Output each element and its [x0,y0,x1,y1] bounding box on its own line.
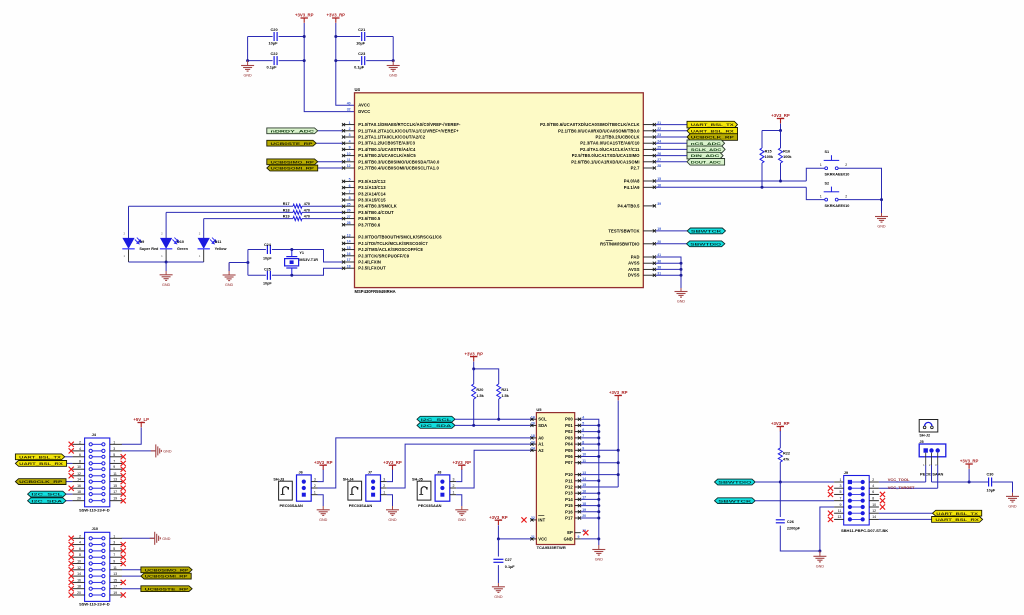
net label UCB0SOMI_RP [318,167,343,169]
capacitor C24 10pF [267,245,270,254]
net label I2C_SCL (U5) [417,416,455,422]
svg-text:3: 3 [113,541,115,545]
svg-text:DVSS: DVSS [628,273,640,278]
svg-text:32: 32 [347,108,351,112]
svg-text:P3.5/TB0.4/COUT: P3.5/TB0.4/COUT [358,210,394,215]
U4 pin 13 PJ.0 [342,236,354,238]
svg-text:14: 14 [872,515,876,519]
wire D10 anode [165,212,167,238]
svg-text:40: 40 [347,101,351,105]
net label DOUT_ADC [656,161,687,163]
U5 pin 22 INT [531,519,537,521]
J4 pin 4 left [89,449,92,452]
svg-text:P1.4/TB0.1/UCA0STE/A4/C4: P1.4/TB0.1/UCA0STE/A4/C4 [358,147,416,152]
op-amp U5 TCA9535RTWR body [536,413,574,545]
svg-text:P2.0/TB0.6/UCA0TXD/UCA0SIMO/TB: P2.0/TB0.6/UCA0TXD/UCA0SIMO/TB0CLK/ACLK [540,122,639,127]
svg-text:UCB0SIMO_RP: UCB0SIMO_RP [145,567,189,572]
svg-text:PJ.4/LFXIN: PJ.4/LFXIN [358,260,381,265]
svg-text:2: 2 [79,440,81,444]
svg-text:23: 23 [531,440,535,444]
svg-text:J10: J10 [92,526,99,531]
svg-text:10µF: 10µF [987,489,996,493]
svg-text:14: 14 [347,240,351,244]
svg-text:TCA9535RTWR: TCA9535RTWR [537,545,566,550]
svg-text:13: 13 [347,233,351,237]
svg-text:19: 19 [113,497,117,501]
U5 INT no-connect x [521,517,526,522]
svg-text:INT: INT [538,517,545,522]
svg-text:GND: GND [677,300,686,304]
svg-text:SH-J5: SH-J5 [412,477,423,481]
U5 pin 25 EP [575,532,581,534]
J10 pin 11 right [102,568,105,571]
svg-text:4: 4 [79,541,81,545]
svg-text:+3V3_RP: +3V3_RP [295,13,314,18]
wire J10 pin1 to GND [122,537,155,539]
J9 pin 11 left [848,511,852,515]
net label UCB0STE_RP (J10) [122,588,141,590]
svg-text:C27: C27 [505,558,512,562]
svg-text:2: 2 [349,127,351,131]
wire C21/C23 right rail [392,37,394,61]
svg-text:39: 39 [657,202,661,206]
svg-text:22: 22 [531,516,535,520]
net label nDRDY_ADC [318,130,343,132]
svg-text:UART_BSL_RX: UART_BSL_RX [935,517,979,522]
U4 pin 10 P1.5 [342,155,354,157]
svg-text:7: 7 [349,190,351,194]
svg-text:2: 2 [872,478,874,482]
svg-text:10pF: 10pF [263,256,272,260]
wire J7 pin3 to 3V3 [387,470,393,482]
svg-text:15: 15 [113,578,117,582]
U4 pin 38 AVSS right [643,268,655,270]
J9 pin 7 left [848,499,852,503]
J10 pin 13 right [102,575,105,578]
svg-text:PAD: PAD [631,255,640,260]
svg-text:4: 4 [349,139,351,143]
svg-text:C30: C30 [987,472,994,476]
svg-text:P2.3/TA0.0/UCA1STE/A6/C10: P2.3/TA0.0/UCA1STE/A6/C10 [580,141,640,146]
svg-text:MSP430FR5949IRHA: MSP430FR5949IRHA [355,289,396,294]
svg-text:10: 10 [77,560,81,564]
wire C30 to gnd [992,482,1012,493]
wire J8 pin2 to A2 [456,450,530,488]
svg-text:J7: J7 [368,471,372,475]
U4 pin 26 P2.5 right [643,155,655,157]
wire J4 pin1 to +5V_LP [122,428,141,445]
svg-text:C20: C20 [271,27,278,32]
J10 pin 7 right [102,556,105,559]
svg-text:PJ.1/TDI/TCLK/MCLK/SRSCG0/C7: PJ.1/TDI/TCLK/MCLK/SRSCG0/C7 [358,241,428,246]
U4 pin 22 P2.1 right [643,130,655,132]
svg-text:GND: GND [458,518,467,522]
svg-text:R18: R18 [283,208,290,212]
svg-text:2: 2 [79,534,81,538]
ground GND (J8) [461,506,463,510]
svg-text:3: 3 [349,133,351,137]
capacitor C22 [274,56,277,65]
J9 pin 14 right [861,517,865,521]
ground GND (LEDs) [165,262,167,271]
svg-text:470: 470 [304,215,310,219]
svg-text:2200pF: 2200pF [787,527,801,531]
svg-text:11: 11 [113,472,117,476]
wire +3V3 to DVCC [304,23,354,112]
svg-text:DOUT_ADC: DOUT_ADC [691,160,721,164]
svg-text:PEC03SAAN: PEC03SAAN [280,503,304,508]
J4 pin 1 right [102,443,105,446]
svg-text:AVSS: AVSS [628,261,640,266]
U4 pin 26 P3.5 [342,211,354,213]
svg-text:+3V3_RP: +3V3_RP [327,13,346,18]
svg-text:P3.4/TB0.3/SMCLK: P3.4/TB0.3/SMCLK [358,204,397,209]
svg-text:P2.7: P2.7 [631,166,641,171]
svg-text:P4.4/TB0.5: P4.4/TB0.5 [617,203,640,208]
svg-text:R20: R20 [476,388,483,392]
U5 pin 23 A1 [531,443,537,445]
svg-text:8: 8 [79,553,81,557]
svg-text:0.1µF: 0.1µF [505,565,515,569]
svg-text:1: 1 [349,121,351,125]
resistor R22 47k [779,431,781,448]
wire C21 row [336,36,360,38]
U4 pin 16 P4.1 right [643,186,655,188]
J10 pin 5 right [102,549,105,552]
resistor R20 1.5k [473,369,475,384]
svg-text:3: 3 [314,477,316,481]
svg-text:18: 18 [347,264,351,268]
svg-text:9: 9 [839,503,841,507]
svg-text:4: 4 [872,484,874,488]
svg-text:TEST/SBWTCK: TEST/SBWTCK [608,228,639,233]
J9 pin 2 right [861,480,865,484]
svg-text:10pF: 10pF [263,281,272,285]
U5 pin 4 P00 right [575,418,581,420]
svg-text:UCB0SOMI_RP: UCB0SOMI_RP [145,574,188,579]
wire J5 pin2 to 3V3 and C30 [931,465,933,482]
svg-text:J5: J5 [919,440,923,444]
wire P4.0 to S1 [656,180,807,182]
svg-text:P2.6/TB0.1/UCA1RXD/UCA1SOMI: P2.6/TB0.1/UCA1RXD/UCA1SOMI [571,159,639,164]
svg-text:GND: GND [319,518,328,522]
svg-text:P02: P02 [565,429,573,434]
svg-text:PJ.2/TMS/ACLK/SROSCOFF/C8: PJ.2/TMS/ACLK/SROSCOFF/C8 [358,247,423,252]
J4 pin 8 left [89,462,92,465]
wire J9 pin9 to gnd [820,507,834,551]
J4 pin 15 right [102,487,105,490]
svg-text:VCC: VCC [538,536,547,541]
svg-text:17: 17 [113,585,117,589]
J10 pin 2 left [89,537,92,540]
J10 pin 10 left [89,562,92,565]
wire D9 anode [128,206,130,238]
shunt SH-J4 [348,481,362,500]
svg-text:6: 6 [349,184,351,188]
svg-text:+3V3_RP: +3V3_RP [960,459,979,464]
J10 pin 15 right [102,581,105,584]
svg-text:S1: S1 [825,150,830,154]
J4 pin 18 left [89,493,92,496]
U4 pin 20 RST right [643,243,655,245]
svg-text:GND: GND [877,225,886,229]
svg-text:I2C_SCL: I2C_SCL [421,417,453,422]
svg-text:8: 8 [872,497,874,501]
svg-text:20: 20 [77,497,81,501]
net label UCB0SIMO_RP (J10) [122,569,141,571]
svg-text:GND: GND [564,536,573,541]
svg-text:C22: C22 [271,51,279,56]
svg-text:SH-J4: SH-J4 [343,477,355,481]
svg-text:UCB0SIMO_RP: UCB0SIMO_RP [271,159,315,164]
wire U5 pin to 3V3 bus [581,449,618,451]
J10 pin 18 left [89,587,92,590]
U5 pin 8 P04 right [575,443,581,445]
U5 pin 20 SDA [531,424,537,426]
ground GND (crystal) [228,263,230,276]
J4 unconnected right pin x marks [121,454,126,459]
svg-text:7: 7 [113,459,115,463]
wire J8 pin3 to 3V3 [456,470,462,482]
svg-text:12: 12 [77,472,81,476]
svg-text:17: 17 [347,258,351,262]
svg-text:P10: P10 [565,472,573,477]
svg-text:1: 1 [113,440,115,444]
J9 pin 1 left [848,480,852,484]
svg-text:20: 20 [77,591,81,595]
svg-text:+3V3_RP: +3V3_RP [489,515,508,520]
svg-text:P3.3/A15/C15: P3.3/A15/C15 [358,198,386,203]
J4 pin 6 left [89,455,92,458]
svg-text:12: 12 [872,509,876,513]
svg-text:470: 470 [304,208,310,212]
svg-text:PEC03SAAN: PEC03SAAN [349,503,373,508]
svg-text:0.1µF: 0.1µF [267,65,278,70]
connector J6 PEC03SAAN body [297,475,312,501]
svg-text:RST/NMI/SBWTDIO: RST/NMI/SBWTDIO [600,241,640,246]
svg-text:SKRKAEE010: SKRKAEE010 [825,204,850,208]
wire S2 to gnd rail [838,200,881,213]
J10 unconnected right pin x marks [121,542,126,547]
J4 pin 17 right [102,493,105,496]
svg-text:A1: A1 [538,442,544,447]
svg-text:C26: C26 [787,520,794,524]
svg-text:P3.2/A14/C14: P3.2/A14/C14 [358,191,386,196]
svg-text:9: 9 [578,535,580,539]
net label I2C_SCL (J4) [66,493,72,495]
svg-text:P1.5/TB0.2/UCA0CLK/A5/C5: P1.5/TB0.2/UCA0CLK/A5/C5 [358,153,416,158]
net label I2C_SDA (J4) [66,500,72,502]
svg-text:C24: C24 [264,243,272,247]
J4 pin 11 right [102,474,105,477]
J10 pin 14 left [89,575,92,578]
J9 pin 12 right [861,511,865,515]
U4 pin 14 PJ.1 [342,242,354,244]
shunt SH-J3 [279,481,293,500]
wire +3V3 to AVCC [336,23,355,105]
svg-text:R19: R19 [283,215,290,219]
net label nCS_ADC [656,142,687,144]
svg-text:SCL: SCL [538,417,547,422]
J4 pin 3 right [102,449,105,452]
J6 pin 2 [302,486,306,490]
U5 pin 5 P01 right [575,424,581,426]
U4 pin 28 P2.7 right [643,167,655,169]
U4 pin 25 P2.4 right [643,148,655,150]
svg-text:+5V_LP: +5V_LP [133,417,149,422]
net label SBWTCK [656,230,688,232]
svg-text:5: 5 [839,490,841,494]
svg-text:VCC_TOOL: VCC_TOOL [888,477,910,482]
LED D10 Green [165,238,167,262]
svg-text:SCLK_ADC: SCLK_ADC [691,148,722,152]
ground GND (J10) [150,532,161,545]
svg-text:GND: GND [162,537,171,541]
ground GND (U4 AVSS) [680,288,682,292]
svg-text:P01: P01 [565,423,573,428]
wire crystal top rail to PJ.4 [248,249,266,251]
wire U5 gnd bus (bus A) [581,419,599,545]
svg-text:P2.4/TA1.0/UCA1CLK/A7/C11: P2.4/TA1.0/UCA1CLK/A7/C11 [580,147,640,152]
J5 pin 1 [924,448,928,452]
svg-text:J6: J6 [299,471,303,475]
resistor R15 100k [761,131,763,149]
U4 pin 31 DVSS right [643,274,655,276]
svg-text:28: 28 [347,221,351,225]
svg-text:3: 3 [839,484,841,488]
svg-text:21: 21 [531,535,535,539]
J10 pin 19 right [102,593,105,596]
U5 INT overline [538,515,544,517]
net label I2C_SDA (U5) [417,423,455,429]
svg-text:SH-J3: SH-J3 [273,477,284,481]
capacitor C20 [274,32,277,41]
svg-text:19: 19 [531,415,535,419]
U4 pin 36 AVSS right [643,262,655,264]
wire C22 row [248,60,273,62]
svg-text:10: 10 [77,465,81,469]
svg-text:1: 1 [314,491,316,495]
shunt SH-J5 [417,481,431,500]
svg-text:6: 6 [79,547,81,551]
net label DIN_ADC [656,155,687,157]
U4 pin 9 P1.4 [342,148,354,150]
svg-text:nDRDY_ADC: nDRDY_ADC [271,128,315,133]
U4 pin 27 P3.6 [342,218,354,220]
wire crystal bottom rail to PJ.5 [248,274,266,276]
svg-text:P4.1/A9: P4.1/A9 [624,185,640,190]
svg-text:UART_BSL_TX: UART_BSL_TX [936,511,978,516]
svg-text:UART_BSL_RX: UART_BSL_RX [691,129,735,133]
LED D9 Super Red [128,238,130,262]
U4 pin 24 P2.3 right [643,142,655,144]
svg-text:+3V3_RP: +3V3_RP [771,421,790,426]
svg-text:2: 2 [453,484,455,488]
wire J6 pin3 to 3V3 [318,470,324,482]
connector J4 SSW-110-23-F-D body [85,438,110,507]
svg-text:D11: D11 [215,240,222,244]
svg-text:16: 16 [77,578,81,582]
svg-text:5: 5 [113,547,115,551]
U5 pin 9 P05 right [575,449,581,451]
ground GND (switches) [881,213,883,217]
svg-text:P3.7/TB0.6: P3.7/TB0.6 [358,222,381,227]
J6 pin 3 [302,480,306,484]
svg-text:EP: EP [567,530,573,535]
wire J7 pin2 to A1 [387,444,531,488]
wire pullup top rail [762,130,781,132]
svg-text:P17: P17 [565,516,573,521]
svg-text:P03: P03 [565,435,573,440]
net label UART_BSL_TX (J4) [65,456,73,458]
U4 pin 5 P3.0 [342,180,354,182]
svg-text:UART_BSL_TX: UART_BSL_TX [691,123,735,127]
ground GND (U5) [598,545,600,550]
svg-text:GND: GND [1008,505,1017,509]
svg-text:GND: GND [243,74,252,78]
svg-text:1: 1 [383,491,385,495]
U4 pin 41 PAD right [643,256,655,258]
net label UCB0SOMI_RP (J10) [122,575,141,577]
J10 pin 8 left [89,556,92,559]
svg-text:17: 17 [113,490,117,494]
U4 pin 11 P1.6 [342,161,354,163]
svg-text:VCC_TARGET: VCC_TARGET [888,485,915,490]
net VCC_TARGET wire [879,487,938,489]
J4 pin 13 right [102,480,105,483]
resistor R16 100k [780,131,782,149]
J4 pin 7 right [102,462,105,465]
U5 pin 17 P14 right [575,498,581,500]
svg-text:J8: J8 [437,471,441,475]
J8 pin 3 [440,480,444,484]
U4 pin 23 P2.2 right [643,136,655,138]
svg-text:SBH11-PBPC-D07-ST-BK: SBH11-PBPC-D07-ST-BK [841,528,888,533]
wire C23 row [336,60,360,62]
svg-text:100k: 100k [765,155,774,159]
svg-text:1: 1 [820,194,822,198]
svg-text:7: 7 [113,553,115,557]
wire J8 pin1 to gnd [456,495,462,506]
svg-text:SKRKAEE010: SKRKAEE010 [825,173,850,177]
J10 pin 6 left [89,549,92,552]
svg-text:SBWTDIO: SBWTDIO [718,480,751,485]
svg-text:27: 27 [347,215,351,219]
svg-text:10µF: 10µF [356,41,366,46]
ground GND (C27) [497,583,499,587]
U5 pin 11 P07 right [575,462,581,464]
svg-text:14: 14 [77,572,81,576]
J4 pin 20 left [89,499,92,502]
svg-text:P1.7/TB0.4/UCB0SOMI/UCB0SCL/TA: P1.7/TB0.4/UCB0SOMI/UCB0SCL/TA1.0 [358,166,439,171]
net label UART_BSL_RX (J9) [879,518,932,520]
svg-text:1: 1 [839,478,841,482]
junction dots C20 group [303,35,306,38]
svg-text:P00: P00 [565,417,573,422]
capacitor C30 10uF [989,478,992,487]
ground GND (C30) [1012,493,1014,497]
crystal Y1 MS3V-T1R [291,250,293,257]
svg-text:P3.1/A13/C13: P3.1/A13/C13 [358,185,386,190]
svg-text:AVCC: AVCC [358,103,370,108]
svg-text:SSW-110-23-F-D: SSW-110-23-F-D [79,602,110,607]
U4 pin 7 P3.2 [342,193,354,195]
J10 unconnected left pin x marks [69,536,74,541]
svg-text:P1.6/TB0.3/UCB0SIMO/UCB0SDA/TA: P1.6/TB0.3/UCB0SIMO/UCB0SDA/TA0.0 [358,159,440,164]
J10 pin 3 right [102,543,105,546]
U4 pin 19 TEST right [643,230,655,232]
U4 pin 39 P4.4 right [643,205,655,207]
